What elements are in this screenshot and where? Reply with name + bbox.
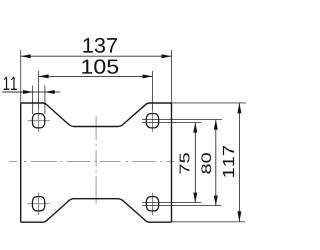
extension line plate top right (117) [172, 102, 247, 104]
extension line hole center right (105) [152, 71, 154, 110]
arrow 75 top [193, 123, 197, 133]
extension line slot left edge (11) [32, 86, 34, 114]
arrow 137 left [21, 54, 31, 58]
centerline vertical (dash-dot) [95, 116, 97, 204]
extension line slot right edge (11) [44, 86, 46, 114]
extension line top hole lower arc (75) [142, 122, 201, 124]
dimension line 80 [215, 120, 217, 206]
slot hole bottom-left [32, 197, 44, 211]
arrow 105 left [39, 74, 49, 78]
dimension line 11 tail left [2, 91, 32, 93]
arrow 105 right [143, 74, 153, 78]
slot hole bottom-right [146, 197, 158, 211]
centerline horizontal (dash-dot) [9, 160, 174, 162]
arrow 80 bottom [214, 196, 218, 206]
centermark hole top-right vertical [152, 110, 154, 132]
label 105 [82, 59, 118, 73]
centermark hole top-left horizontal [28, 120, 50, 122]
arrow 117 bottom [237, 211, 241, 221]
arrow 11 left (outside, points right) [23, 90, 32, 94]
label 117 (rotated) [223, 146, 234, 177]
arrow 11 right (outside, points left) [45, 90, 55, 94]
extension line left edge (137) [20, 50, 22, 103]
label 11 [4, 77, 17, 90]
dimension line 117 [238, 103, 240, 222]
centermark hole bottom-left horizontal [28, 203, 50, 205]
arrow 75 bottom [193, 193, 197, 203]
centermark hole bottom-right vertical [152, 193, 154, 215]
extension line top hole upper arc (80) [142, 119, 222, 121]
extension line plate bottom right (117) [172, 221, 246, 223]
label 80 (rotated) [201, 153, 211, 174]
dimension line 137 [21, 55, 172, 57]
label 137 [83, 38, 117, 53]
extension line right edge (137) [171, 50, 173, 103]
centermark hole bottom-left vertical [38, 193, 40, 215]
dimension line 75 [194, 123, 196, 203]
dimension line 105 [39, 75, 153, 77]
extension line bottom hole lower arc (80) [142, 205, 221, 207]
label 75 (rotated) [180, 153, 190, 174]
slot hole top-right [146, 114, 158, 128]
dimension line 11 tail right [45, 91, 60, 93]
arrow 137 right [162, 54, 172, 58]
extension line bottom hole upper arc (75) [142, 202, 201, 204]
arrow 117 top [237, 103, 241, 113]
slot hole top-left [32, 114, 44, 128]
arrow 80 top [214, 120, 218, 130]
dimension line 11 middle [33, 91, 45, 93]
extension line hole center left (105) [38, 71, 40, 110]
plate outline [21, 103, 172, 222]
centermark hole top-left vertical [38, 110, 40, 132]
